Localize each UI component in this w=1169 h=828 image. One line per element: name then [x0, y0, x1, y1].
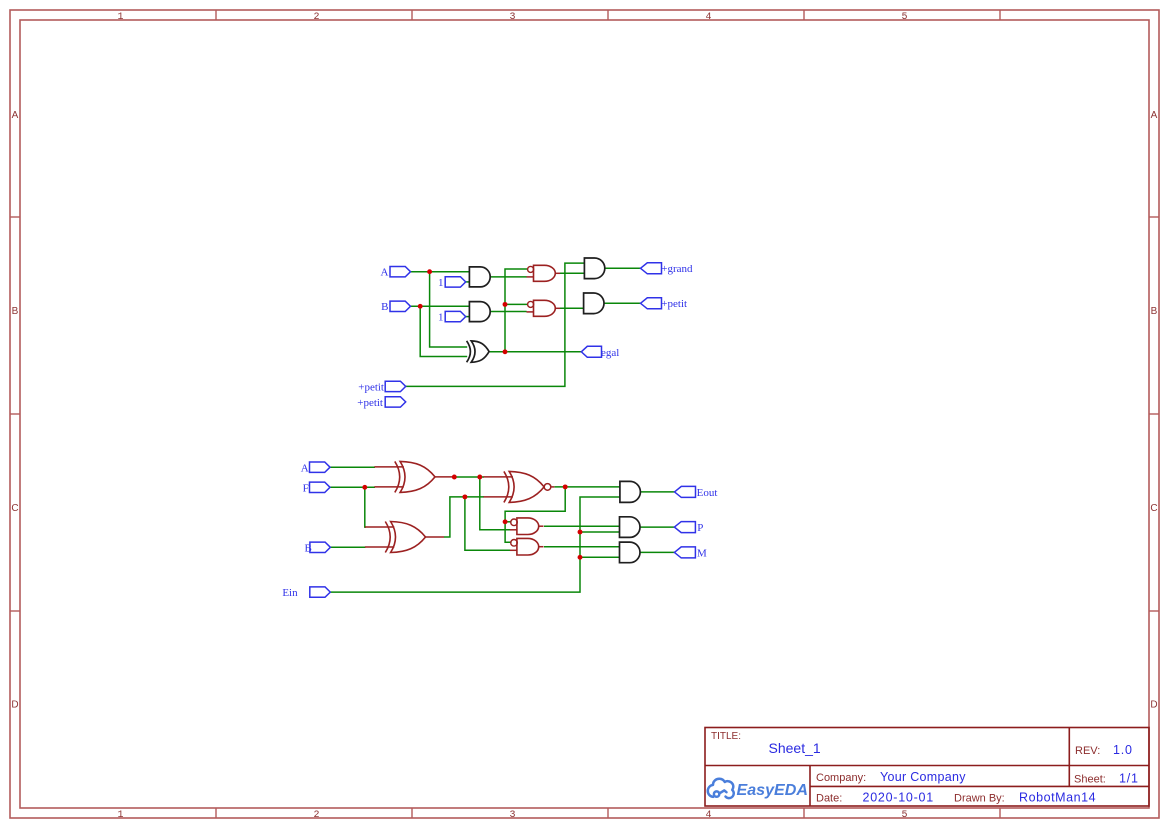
svg-text:C: C — [11, 503, 18, 514]
svg-text:1: 1 — [117, 12, 123, 23]
svg-text:TITLE:: TITLE: — [711, 731, 741, 742]
svg-text:M: M — [697, 548, 707, 560]
svg-text:F: F — [303, 482, 309, 494]
svg-text:B: B — [305, 542, 312, 554]
svg-text:+petit: +petit — [661, 298, 687, 310]
svg-text:+petit: +petit — [357, 397, 383, 409]
svg-text:B: B — [381, 301, 388, 313]
svg-text:Eout: Eout — [697, 487, 718, 499]
svg-text:3: 3 — [509, 810, 515, 821]
svg-text:D: D — [1150, 700, 1157, 711]
svg-text:1: 1 — [117, 810, 123, 821]
svg-text:B: B — [12, 306, 19, 317]
svg-text:B: B — [1151, 306, 1158, 317]
svg-text:P: P — [697, 522, 703, 534]
svg-text:5: 5 — [901, 810, 907, 821]
svg-text:4: 4 — [705, 810, 711, 821]
svg-text:REV:: REV: — [1075, 745, 1100, 757]
svg-text:A: A — [381, 267, 389, 279]
svg-text:+grand: +grand — [661, 263, 693, 275]
svg-text:Sheet:: Sheet: — [1074, 773, 1106, 785]
svg-text:Company:: Company: — [816, 772, 866, 784]
svg-text:1: 1 — [438, 312, 444, 324]
svg-text:A: A — [1151, 110, 1158, 121]
svg-text:EasyEDA: EasyEDA — [737, 782, 809, 799]
svg-text:egal: egal — [601, 347, 619, 359]
svg-text:1: 1 — [438, 277, 444, 289]
svg-text:5: 5 — [901, 12, 907, 23]
svg-text:+petit: +petit — [358, 381, 384, 393]
svg-text:Your Company: Your Company — [880, 770, 966, 784]
svg-text:1/1: 1/1 — [1119, 771, 1139, 785]
svg-text:Ein: Ein — [282, 587, 298, 599]
svg-text:C: C — [1150, 503, 1157, 514]
svg-text:4: 4 — [705, 12, 711, 23]
svg-text:3: 3 — [509, 12, 515, 23]
svg-text:A: A — [12, 110, 19, 121]
svg-text:2020-10-01: 2020-10-01 — [863, 791, 934, 805]
svg-text:2: 2 — [313, 810, 319, 821]
svg-text:Drawn By:: Drawn By: — [954, 792, 1005, 804]
svg-text:Date:: Date: — [816, 792, 842, 804]
svg-text:D: D — [11, 700, 18, 711]
svg-text:1.0: 1.0 — [1113, 743, 1133, 757]
svg-text:RobotMan14: RobotMan14 — [1019, 791, 1096, 805]
svg-text:Sheet_1: Sheet_1 — [769, 740, 821, 756]
svg-text:A: A — [301, 462, 309, 474]
svg-text:2: 2 — [313, 12, 319, 23]
